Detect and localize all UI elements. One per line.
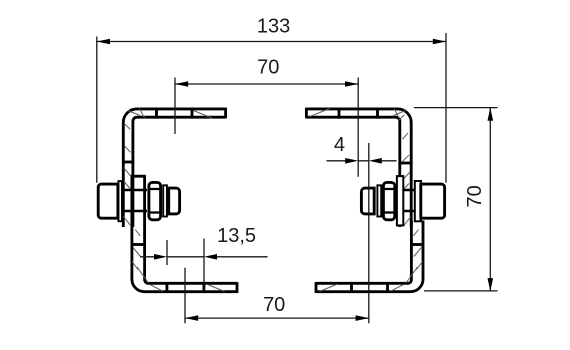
right bolt head [421,184,445,218]
dimension 4 line [327,160,397,162]
dimension right 70 extension line top [414,107,498,109]
dimension bottom 70 arrow right [356,315,369,321]
right lower angle inner contour [316,221,411,284]
left upper angle top flange end cap [224,108,227,119]
left side hatching [124,109,225,292]
right bolt shank hole lines [397,190,421,211]
dimension right 70 arrow top [488,108,494,121]
dimension 133 extension line right [445,33,447,183]
dimension bottom 70 line [185,317,369,319]
dimension right 70 line [489,108,491,292]
dimension bottom 70 arrow left [185,315,198,321]
dimension 133 extension line left [96,37,98,183]
left lower angle bottom flange slot line b [202,282,205,293]
right bolt hex nut [383,182,394,219]
dimension 133 arrow left [97,39,110,45]
left lower angle web top end cap [131,175,146,178]
right lower angle bottom flange end cap [315,282,318,293]
svg-text:70: 70 [464,185,486,207]
right bolt collar washer [377,185,381,216]
right upper angle outer contour [306,109,411,227]
dimension 4 extension line right [368,143,370,323]
dimension 13,5 extension line left [166,240,168,265]
left lower angle bottom flange end cap [236,282,239,293]
svg-text:13,5: 13,5 [217,225,256,247]
left upper angle outer contour [123,109,225,227]
right side hatching [310,109,423,292]
left lower angle inner contour [145,176,237,283]
right bolt tall washer [397,176,403,225]
left bolt threaded end [169,188,180,214]
dimension 13,5 line [140,256,268,258]
left upper angle web joint line [122,161,134,164]
right lower angle outer contour [316,221,423,292]
svg-text:70: 70 [263,294,285,316]
right upper angle inner contour [306,117,399,227]
left upper angle top flange slot line a [155,108,158,119]
dimension 133 line [97,41,446,43]
svg-text:4: 4 [334,134,345,156]
dimension right 70 arrow bottom [488,278,494,291]
left bolt head [98,184,118,218]
dimension 133 arrow right [433,39,446,45]
left bolt shank hole lines [118,190,148,211]
right lower angle bottom flange slot line b [386,282,389,293]
left bolt washer under head [118,181,122,221]
right upper angle top flange slot line a [338,108,341,119]
dimension top 70 arrow right [345,81,358,87]
dimension top 70 arrow left [175,81,188,87]
dimension top 70 extension line left [174,78,176,135]
right bolt threaded end [361,188,374,214]
dimension top 70 extension line right [357,78,359,177]
right upper angle top flange end cap [305,108,308,119]
svg-text:133: 133 [257,15,290,37]
right lower angle bottom flange slot line a [350,282,353,293]
right upper angle top flange slot line b [376,108,379,119]
right bolt washer under head [415,181,421,221]
svg-text:70: 70 [257,56,279,78]
left lower angle bottom flange slot line a [165,282,168,293]
dimension 4 arrow left [345,158,358,164]
dimension bottom 70 extension line left [184,268,186,324]
dimension 13,5 extension line right [203,239,205,291]
right upper angle web joint line [398,162,412,165]
left upper angle inner contour [133,117,226,227]
dimension 13,5 arrow left [154,254,167,260]
dimension top 70 line [175,83,358,85]
dimension right 70 extension line bottom [424,290,498,292]
left lower angle web joint line [131,243,146,246]
left upper angle top flange slot line b [191,108,194,119]
left bolt collar washer [163,185,167,216]
right lower angle web joint line [410,243,424,246]
dimension 13,5 arrow right [204,254,217,260]
dimension 4 arrow right [369,158,382,164]
left bolt hex nut [149,182,161,219]
left lower angle outer contour [132,176,237,291]
